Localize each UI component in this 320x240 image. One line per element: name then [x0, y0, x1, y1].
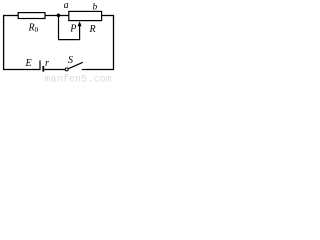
svg-text:a: a [64, 0, 69, 11]
wire: rheostat to right border [102, 15, 115, 17]
svg-text:E: E [25, 58, 32, 69]
switch pivot contact [65, 68, 68, 71]
wire: bottom left horizontal [3, 69, 40, 71]
wire: wiper arrow shaft [79, 25, 81, 41]
svg-text:R: R [89, 24, 96, 35]
wire: wiper drop from junction [58, 16, 60, 40]
resistor R0 box [18, 13, 45, 19]
wiper arrowhead P [78, 21, 82, 26]
svg-text:S: S [68, 55, 73, 66]
switch S lever [68, 62, 83, 69]
wire: wiper horizontal run [58, 39, 80, 41]
junction node dot [57, 14, 61, 18]
wire: left border vertical [3, 16, 5, 70]
svg-text:r: r [45, 58, 49, 69]
wire: right border vertical [113, 16, 115, 70]
battery cell E: short plate [42, 66, 44, 72]
rheostat R box [69, 11, 102, 20]
svg-text:P: P [69, 23, 76, 34]
svg-text:b: b [93, 3, 98, 13]
wire: bottom right horizontal [82, 69, 114, 71]
wire: top left horizontal to R0 [3, 15, 19, 17]
svg-text:manfen5.com: manfen5.com [45, 73, 112, 82]
wire: battery to switch [44, 69, 65, 71]
battery cell E: long plate [39, 60, 41, 70]
wire: R0 to junction to rheostat [45, 15, 69, 17]
